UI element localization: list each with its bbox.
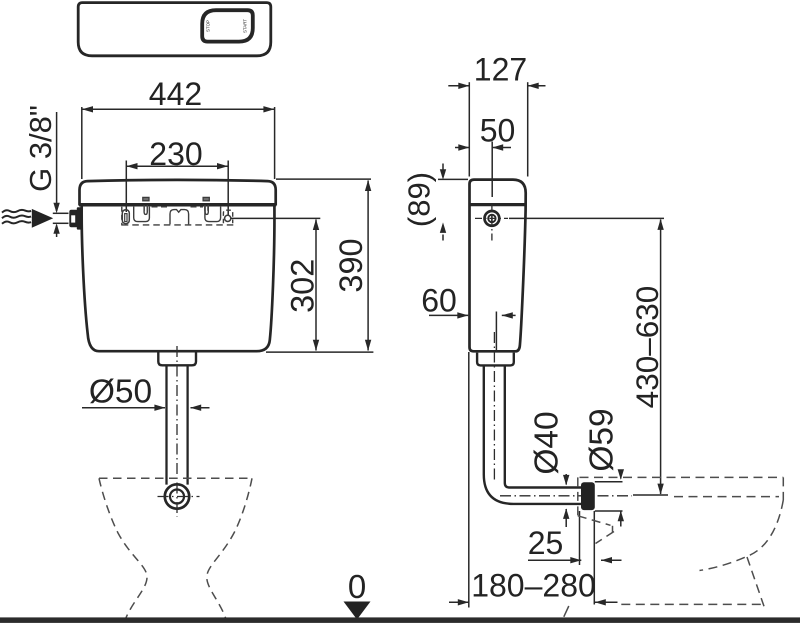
front view: inlet flow arrow (32, 209, 53, 228)
side view: pipe center lines (494, 332, 632, 496)
side view: toilet bowl dashed (578, 477, 784, 606)
lid screws (143, 197, 210, 200)
top view: cistern lid outline (78, 3, 271, 56)
dim 25 (528, 511, 622, 605)
svg-text:Ø50: Ø50 (89, 374, 152, 411)
front view: water inlet waves (2, 210, 31, 224)
side view: flush button (485, 211, 500, 226)
svg-text:50: 50 (480, 113, 516, 149)
svg-text:G 3/8": G 3/8" (23, 105, 58, 192)
mechanism left capsule (122, 210, 129, 224)
mechanism cup right (205, 205, 208, 214)
dim (89) (438, 164, 468, 241)
dim 60 (429, 312, 516, 353)
dim 390 (266, 179, 373, 352)
front view: cistern body (79, 180, 276, 351)
bowl trap dashed segment (564, 606, 569, 617)
front view: pipe outlet circle (165, 484, 189, 508)
front view: inlet valve (69, 207, 82, 229)
svg-text:(89): (89) (402, 172, 437, 227)
svg-text:127: 127 (474, 52, 527, 88)
front view: flush pipe (167, 365, 188, 484)
side view: elbow flush pipe (484, 365, 582, 504)
svg-text:Ø40: Ø40 (529, 411, 566, 474)
svg-text:60: 60 (421, 283, 457, 319)
front view: internal mechanism dashed (122, 207, 235, 226)
svg-text:Ø59: Ø59 (584, 408, 621, 471)
dim 180-280 (449, 352, 618, 608)
svg-text:START: START (243, 19, 248, 33)
svg-text:25: 25 (528, 525, 564, 561)
dim Ø50 (82, 407, 210, 409)
mechanism right ring (225, 215, 231, 221)
svg-text:390: 390 (333, 238, 369, 292)
front view: pipe center lines (158, 346, 200, 517)
svg-text:302: 302 (285, 259, 321, 313)
svg-text:442: 442 (149, 76, 202, 112)
ground line (0, 617, 800, 623)
front view: toilet bowl dashed (99, 478, 252, 618)
side view: lid joint line (469, 203, 526, 206)
top view: flush button (202, 10, 253, 41)
dim Ø59 (595, 474, 623, 527)
svg-text:180–280: 180–280 (471, 568, 596, 604)
svg-text:230: 230 (149, 136, 202, 172)
dim 50 (455, 142, 511, 198)
svg-text:430–630: 430–630 (629, 286, 665, 409)
dim Ø40 (565, 474, 567, 527)
dim G 3/8" lines (53, 112, 69, 237)
mechanism cup left (134, 207, 150, 222)
dim 127 (448, 82, 545, 176)
dim 230 (126, 161, 228, 216)
mechanism middle hat (170, 210, 189, 225)
side view: button center lines (475, 205, 508, 241)
zero level marker (344, 568, 371, 620)
side view: cistern body (469, 180, 526, 352)
front view: flush pipe boss (158, 350, 196, 365)
svg-text:0: 0 (348, 568, 366, 605)
front view: lid joint line (79, 203, 276, 207)
side view: wall fitting black (581, 482, 595, 510)
dim 442 (82, 107, 275, 179)
dim 302 (231, 218, 320, 350)
svg-text:STOP: STOP (206, 20, 211, 32)
side view: outlet collar (477, 353, 514, 366)
dim 430-630 (509, 218, 668, 495)
